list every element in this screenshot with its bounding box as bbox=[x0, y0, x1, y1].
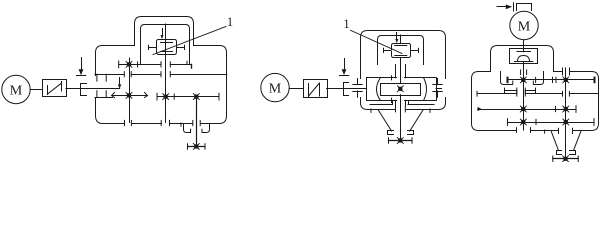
worm vertical shaft top (scheme 2) bbox=[400, 35, 402, 43]
motor shaft down (scheme 3) bbox=[523, 40, 525, 48]
worm bracket bottom (scheme 1) bbox=[157, 49, 177, 55]
bevel pinion (scheme 1) bbox=[118, 78, 121, 89]
wheel shaft left (scheme 2) bbox=[361, 88, 367, 90]
worm shaft horizontal (scheme 2) bbox=[384, 48, 419, 52]
gear row3 (scheme 1) bbox=[157, 93, 219, 100]
right wall bearing (scheme 2) bbox=[433, 79, 442, 98]
wheel rim top line (scheme 2) bbox=[367, 76, 437, 80]
vertical shaft Q lower (scheme 3) bbox=[565, 130, 567, 159]
worm bracket bottom (scheme 2) bbox=[392, 52, 411, 58]
leader line (scheme 1) bbox=[153, 27, 226, 55]
vertical shaft P (scheme 3) bbox=[523, 48, 525, 130]
input arrow (scheme 1) bbox=[77, 58, 86, 76]
wheel hub rect (scheme 2) bbox=[381, 84, 421, 96]
vertical shaft (scheme 2) bbox=[400, 58, 402, 141]
inner hook left (scheme 3) bbox=[501, 72, 513, 85]
housing outline (scheme 2) bbox=[361, 31, 446, 110]
top edge bearing ticks Q (scheme 3) bbox=[563, 68, 570, 75]
svg-text:M: M bbox=[269, 82, 282, 97]
housing outline (scheme 1) bbox=[96, 17, 227, 124]
output bar (scheme 3) bbox=[553, 156, 578, 162]
left wall bearing (scheme 2) bbox=[353, 79, 362, 98]
coupling (scheme 3) bbox=[514, 3, 532, 11]
worm vertical shaft (scheme 1) bbox=[165, 24, 167, 54]
svg-text:M: M bbox=[10, 84, 23, 99]
housing bottom edge ticks (scheme 1) bbox=[125, 120, 201, 126]
worm bracket top (scheme 2) bbox=[392, 44, 411, 50]
gear row4 (scheme 3) bbox=[508, 119, 595, 126]
worm bracket top (scheme 1) bbox=[157, 40, 177, 47]
label 1 (scheme 2) bbox=[343, 17, 349, 31]
bottom edge ticks (scheme 3) bbox=[517, 128, 573, 134]
bore lines worm (scheme 2) bbox=[396, 65, 406, 78]
inner box (scheme 2) bbox=[378, 36, 424, 65]
svg-text:1: 1 bbox=[343, 17, 349, 31]
bottom edge ticks (scheme 2) bbox=[371, 106, 430, 112]
svg-text:1: 1 bbox=[227, 15, 233, 29]
shelf lines (scheme 2) bbox=[370, 100, 434, 104]
lower bracket left (scheme 1) bbox=[184, 124, 191, 133]
label 1 (scheme 1) bbox=[227, 15, 233, 29]
band outline (scheme 3) bbox=[472, 72, 599, 131]
bevel wheel bar (scheme 1) bbox=[112, 92, 148, 98]
motor M (scheme 1) bbox=[2, 75, 30, 103]
output bar (scheme 1) bbox=[188, 144, 206, 150]
worm box (scheme 3) bbox=[510, 49, 538, 64]
gear row1 (scheme 1) bbox=[119, 61, 192, 68]
belt bottom pulley (scheme 3) bbox=[557, 151, 576, 155]
wheel shaft right (scheme 2) bbox=[436, 88, 442, 90]
lower bracket right (scheme 1) bbox=[202, 124, 210, 133]
variator (scheme 2) bbox=[304, 80, 328, 98]
wheel rim bottom line (scheme 2) bbox=[367, 98, 437, 102]
bore lines lower (scheme 2) bbox=[396, 100, 406, 106]
worm arrow (scheme 2) bbox=[395, 33, 398, 44]
joint line rowB (scheme 3) bbox=[477, 91, 599, 96]
vertical shaft B (scheme 1) bbox=[165, 54, 167, 123]
tower outline (scheme 3) bbox=[491, 46, 554, 72]
worm input arrow (scheme 1) bbox=[161, 29, 164, 40]
vertical shaft C (scheme 1) bbox=[196, 97, 198, 147]
variator (scheme 1) bbox=[43, 80, 67, 97]
gear row1 (scheme 3) bbox=[508, 77, 595, 83]
motor M (scheme 2) bbox=[261, 73, 289, 101]
shaft motor-variator (scheme 2) bbox=[289, 88, 303, 90]
input arrow (scheme 3) bbox=[497, 4, 512, 9]
coupling (scheme 2) bbox=[344, 83, 349, 96]
wheel rim left crescent (scheme 2) bbox=[367, 78, 381, 101]
svg-text:M: M bbox=[518, 20, 531, 35]
vertical shaft A (scheme 1) bbox=[129, 58, 131, 123]
input shaft (scheme 1) bbox=[66, 88, 120, 90]
belt legs (scheme 3) bbox=[551, 132, 581, 151]
bore line rowA (scheme 3) bbox=[505, 88, 536, 93]
input arrow (scheme 2) bbox=[340, 59, 349, 76]
shaft variator-coupling (scheme 2) bbox=[327, 88, 361, 90]
vertical shaft Q (scheme 3) bbox=[565, 68, 567, 130]
belt bottom pulley (scheme 2) bbox=[388, 131, 414, 135]
inner hook right (scheme 3) bbox=[533, 72, 543, 85]
gear row3 (scheme 3) bbox=[478, 106, 576, 113]
wheel rim right crescent (scheme 2) bbox=[424, 78, 437, 101]
worm shaft horizontal (scheme 1) bbox=[149, 45, 185, 49]
belt legs (scheme 2) bbox=[378, 110, 423, 131]
coupling (scheme 1) bbox=[81, 84, 87, 96]
leader line (scheme 2) bbox=[351, 30, 403, 53]
shaft motor-variator (scheme 1) bbox=[30, 89, 42, 91]
joint line row2 (scheme 1) bbox=[113, 72, 227, 77]
inner tower box (scheme 1) bbox=[141, 25, 190, 65]
wall bearing lower (scheme 1) bbox=[95, 91, 113, 98]
output bar (scheme 2) bbox=[389, 138, 413, 144]
motor M (scheme 3) bbox=[510, 11, 538, 39]
wall bearing upper (scheme 1) bbox=[95, 74, 113, 81]
top edge bearing ticks P (scheme 3) bbox=[521, 70, 527, 75]
